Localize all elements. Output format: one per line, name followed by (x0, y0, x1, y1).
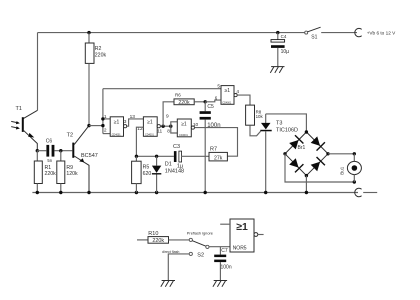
wire NOR3 pin9 jog (171, 122, 178, 126)
wire S2 common to NOR5 (209, 246, 230, 248)
op NOR2 gate (130, 114, 163, 137)
wire NOR3 pin8 jog (171, 126, 178, 133)
node C3 row / R5 (135, 155, 138, 158)
wire bridge left to Bu1 bottom (285, 154, 354, 182)
node rail R9 (59, 191, 62, 194)
svg-text:5n: 5n (47, 158, 52, 163)
node pin1 (101, 117, 104, 120)
ground under C7 (213, 281, 227, 287)
phototransistor T1 (11, 106, 37, 151)
svg-text:8: 8 (167, 128, 170, 134)
svg-text:TIC106D: TIC106D (276, 128, 298, 134)
svg-text:R5: R5 (143, 164, 150, 170)
wire NOR1 out to NOR2 pin13 (127, 119, 144, 126)
ground under C4 (270, 67, 284, 73)
wire node to NOR1 pin2 (89, 125, 103, 127)
node rail R1 (36, 191, 39, 194)
wire R8 to T3 gate (250, 125, 261, 136)
svg-text:4: 4 (236, 89, 239, 95)
svg-text:220k: 220k (45, 171, 57, 177)
svg-text:≥1: ≥1 (236, 221, 248, 233)
svg-text:S2: S2 (197, 253, 204, 259)
svg-text:220k: 220k (95, 52, 107, 58)
svg-text:10k: 10k (256, 114, 264, 119)
svg-text:CD4001: CD4001 (145, 134, 154, 137)
node Bu1 top (353, 152, 356, 155)
svg-text:T2: T2 (67, 132, 73, 138)
wire pin2 stub (103, 133, 110, 135)
node rail C5 (204, 191, 207, 194)
node R6 tap (161, 125, 164, 128)
capacitor C5 (200, 102, 221, 193)
wire NOR3 out to R7 right (195, 128, 238, 157)
wire NOR2 out to NOR3 inputs (160, 125, 170, 127)
wire C3 node row left (136, 155, 174, 157)
svg-text:220k: 220k (152, 238, 164, 244)
resistor R2 (85, 33, 106, 126)
node rail T3 (264, 191, 267, 194)
svg-text:100n: 100n (221, 265, 232, 271)
node rail R5 (135, 191, 138, 194)
svg-text:NOR5: NOR5 (233, 246, 247, 252)
wire NOR5 upper input stub (220, 223, 230, 225)
svg-text:S1: S1 (311, 35, 317, 41)
svg-text:R10: R10 (148, 231, 158, 237)
node NOR3 input (169, 125, 172, 128)
thyristor T3 TIC106D (260, 114, 298, 193)
svg-text:≥1: ≥1 (147, 119, 153, 125)
wire bridge bottom to rail (305, 176, 307, 193)
svg-text:120k: 120k (66, 171, 78, 177)
svg-text:C5: C5 (207, 104, 214, 110)
svg-text:≥1: ≥1 (225, 88, 231, 94)
svg-text:T1: T1 (16, 106, 22, 112)
svg-text:C7: C7 (221, 248, 228, 254)
node rail D1 (155, 191, 158, 194)
svg-text:R2: R2 (95, 46, 102, 52)
svg-text:11: 11 (157, 129, 162, 135)
ground under S2 (161, 281, 175, 287)
node D1 anode (155, 155, 158, 158)
wire S1 to +Vb terminal (321, 32, 357, 34)
wire rail to S1 (278, 32, 305, 34)
node Bu1 bottom (353, 180, 356, 183)
wire feedback NOR1 inputs to NOR4 pin5 (103, 88, 221, 90)
capacitor C3 (173, 144, 209, 169)
switch S2 (162, 230, 213, 258)
terminal output (355, 188, 378, 196)
node C4 junction (276, 31, 279, 34)
wire C6 to T2 base (55, 150, 73, 152)
diode D1 1N4148 (152, 156, 184, 192)
svg-text:C4: C4 (281, 34, 287, 39)
op NOR3 gate (166, 113, 199, 137)
wire left vertical from rail (37, 33, 39, 111)
terminal +Vb (355, 28, 396, 36)
svg-text:27k: 27k (214, 155, 223, 161)
svg-text:≥1: ≥1 (181, 122, 187, 128)
svg-text:≥1: ≥1 (114, 119, 120, 125)
op NOR4 gate (215, 84, 240, 105)
node C5 top (204, 100, 207, 103)
wire NOR4 out to R8 (237, 95, 250, 105)
node rail T2 (87, 191, 90, 194)
resistor R10 (137, 231, 189, 244)
op NOR1 gate (104, 114, 127, 137)
wire NOR2 pin12 from C3 node (136, 127, 143, 156)
resistor R8 (246, 105, 264, 125)
svg-text:13: 13 (130, 114, 136, 120)
node C6/R9 (59, 149, 62, 152)
wire top supply rail (38, 32, 278, 34)
node T1 emitter / C6 / R1 (36, 149, 39, 152)
svg-text:220k: 220k (178, 100, 190, 106)
svg-text:CD4001: CD4001 (222, 101, 231, 104)
resistor R5 (132, 156, 152, 192)
transistor T2 BC547 (67, 126, 98, 193)
svg-text:1: 1 (104, 114, 107, 120)
resistor R1 (34, 151, 56, 193)
svg-text:C3: C3 (173, 144, 180, 150)
svg-text:10µ: 10µ (281, 49, 290, 55)
wire bridge right to Bu1 (328, 153, 354, 155)
wire T3 anode to bridge top (266, 114, 307, 132)
wire node to C6 (37, 150, 46, 152)
resistor R6 (163, 93, 205, 127)
bridge rectifier Br1 (283, 130, 329, 177)
resistor R9 (57, 151, 78, 193)
svg-text:R6: R6 (175, 93, 181, 98)
svg-text:Br1: Br1 (298, 145, 306, 151)
op NOR5 gate (230, 219, 264, 252)
svg-text:R7: R7 (210, 147, 217, 153)
wire ground rail (32, 192, 358, 194)
svg-text:Preflash ignore: Preflash ignore (187, 230, 213, 235)
svg-text:2: 2 (104, 127, 107, 133)
node rail bridge (305, 191, 308, 194)
wire pin1 stub (103, 118, 110, 120)
svg-text:BC547: BC547 (81, 153, 98, 159)
wire S2 direct flash to ground (168, 254, 189, 281)
node R2 top (87, 31, 90, 34)
svg-text:+Vb 6 to 12 V: +Vb 6 to 12 V (367, 30, 396, 35)
svg-text:C6: C6 (46, 139, 53, 145)
svg-text:CD4001: CD4001 (179, 134, 188, 137)
svg-text:CD4001: CD4001 (112, 134, 121, 137)
svg-text:Bu1: Bu1 (340, 166, 345, 175)
capacitor C7 (214, 247, 232, 281)
node R2 / T2 collector (87, 124, 90, 127)
svg-text:3: 3 (124, 119, 127, 125)
node pin2 (101, 124, 104, 127)
svg-text:9: 9 (166, 113, 169, 119)
switch S1 (305, 27, 321, 40)
svg-text:D1: D1 (165, 162, 172, 168)
wire NOR1 input vertical (102, 89, 104, 134)
connector Bu1 (340, 154, 362, 182)
resistor R7 (209, 147, 227, 162)
svg-text:T3: T3 (276, 120, 282, 126)
capacitor C4 (271, 33, 289, 67)
svg-text:5: 5 (217, 84, 220, 90)
svg-text:620: 620 (143, 171, 152, 177)
svg-text:1N4148: 1N4148 (165, 168, 184, 174)
capacitor C6 (46, 139, 55, 163)
wire C5 node to NOR4 pin6 (205, 100, 221, 102)
